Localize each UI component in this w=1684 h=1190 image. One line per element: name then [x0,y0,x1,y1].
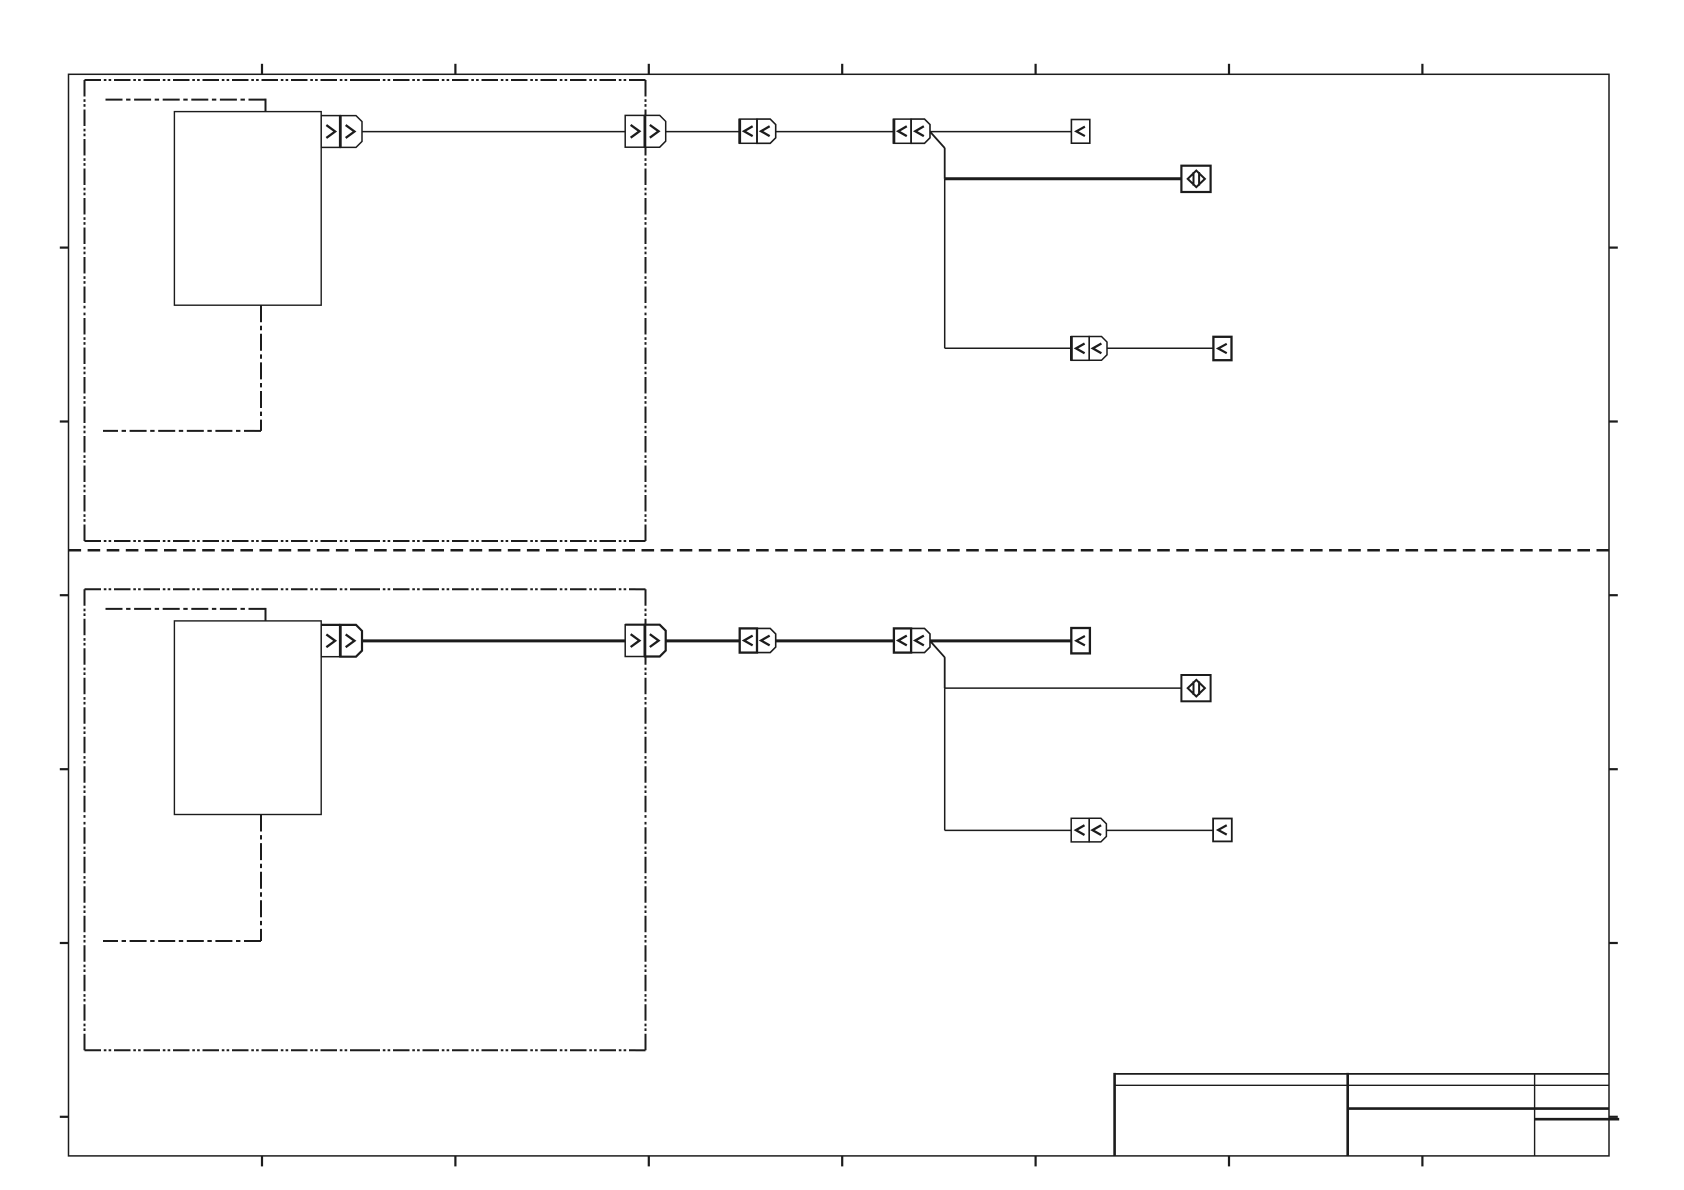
connector pair at harness boundary (top) [625,115,666,148]
wire main run segment 1 (bottom) [362,639,625,642]
inline connector pair C (bottom) [1071,818,1106,842]
wire branch diagonal (top) [930,132,945,148]
wire main run segment 3 (top) [776,131,894,133]
inline connector pair A (bottom) [740,628,776,652]
wire main run segment 1 (top) [362,131,625,133]
wire main run segment 4 (bottom) [930,639,1071,642]
terminal connector main (bottom) [1071,628,1090,653]
wire branch vertical upper (top) [944,148,946,179]
splice / shield symbol (top) [1181,166,1210,192]
wire to splice (top) [945,177,1182,180]
terminal connector lower branch (bottom) [1213,819,1232,842]
wire branch vertical lower (top) [944,179,946,348]
frame reference ticks left [60,248,69,1117]
component boundary dash-dot lower (bottom) [103,815,261,942]
wire lower branch horizontal (bottom) [945,829,1072,831]
wire to lower terminal (top) [1107,347,1213,349]
wire main run segment 3 (bottom) [776,639,894,642]
inline connector pair A (top) [740,119,776,144]
wire branch diagonal (bottom) [930,641,945,657]
inline connector pair B (top) [894,119,930,144]
splice / shield symbol (bottom) [1181,675,1210,701]
wire main run segment 2 (top) [666,131,740,133]
wire branch vertical upper (bottom) [944,657,946,688]
title block [1115,1073,1620,1156]
harness location boundary (dash-dot-dot) (bottom) [85,589,646,1050]
wire branch vertical lower (bottom) [944,688,946,830]
wire main run segment 2 (bottom) [666,639,740,642]
component boundary dash-dot upper (top) [104,99,266,112]
connector pair at control unit (bottom) [321,624,362,657]
frame reference ticks right [1609,248,1618,1117]
component boundary dash-dot upper (bottom) [104,608,266,621]
wire to lower terminal (bottom) [1106,829,1213,831]
connector pair at harness boundary (bottom) [625,624,666,657]
wire lower branch horizontal (top) [945,347,1072,349]
sheet separator dashed line [69,549,1610,552]
inline connector pair C (top) [1071,336,1107,361]
wire to splice (bottom) [945,687,1182,689]
harness location boundary (dash-dot-dot) (top) [85,80,646,541]
wire main run segment 4 (top) [930,131,1071,133]
control unit block (top) [174,112,321,306]
component boundary dash-dot lower (top) [103,305,261,431]
connector pair at control unit (top) [321,115,362,148]
control unit block (bottom) [174,621,321,815]
terminal connector main (top) [1071,120,1089,144]
terminal connector lower branch (top) [1213,337,1231,360]
frame reference ticks top [262,64,1422,75]
frame reference ticks bottom [262,1156,1422,1167]
inline connector pair B (bottom) [894,628,930,652]
